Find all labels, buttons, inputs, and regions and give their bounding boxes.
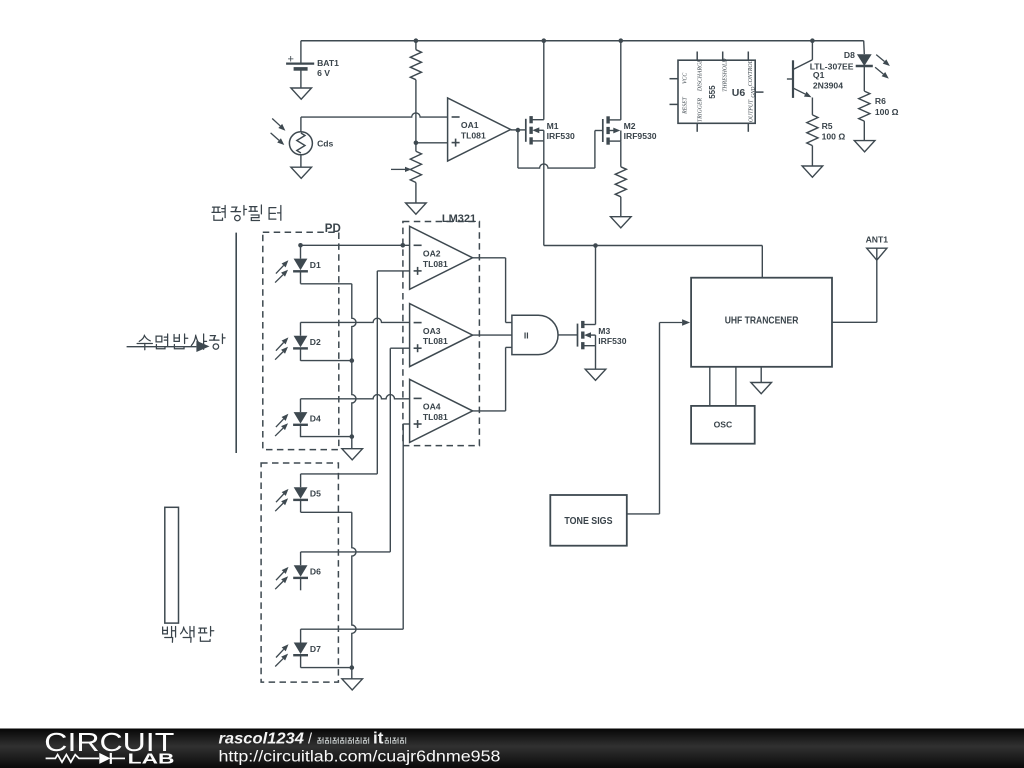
svg-text:RESET: RESET	[683, 96, 689, 115]
svg-text:CONTROL: CONTROL	[748, 60, 754, 86]
node OA1 output	[516, 128, 521, 133]
svg-text:TONE SIGS: TONE SIGS	[564, 516, 613, 527]
wire cathode bus down to ground (bumps over D2,D4 rows)	[352, 284, 356, 449]
transistor M2 IRF9530	[603, 116, 657, 144]
PD box (upper photodiode array)	[263, 223, 341, 450]
white board	[165, 507, 179, 623]
resistor below M2	[615, 167, 626, 217]
svg-text:OA2: OA2	[423, 249, 441, 259]
ground (potentiometer)	[406, 203, 427, 214]
svg-text:+: +	[288, 53, 294, 65]
wire M3 drain up to power node	[595, 246, 597, 325]
wire OA2 non-inv input down to D5	[377, 271, 409, 474]
svg-text:6 V: 6 V	[317, 68, 330, 78]
wire D2 to OA3 inverting input (hop at D5 column)	[301, 318, 410, 322]
svg-text:LAB: LAB	[128, 751, 175, 768]
photodiode D5	[275, 474, 321, 512]
transistor M3 IRF530	[578, 321, 627, 349]
wire OA1 output to M1 gate	[511, 129, 526, 131]
battery BAT1	[286, 41, 339, 88]
photodiode D6	[275, 552, 321, 590]
svg-text:100 Ω: 100 Ω	[875, 107, 899, 117]
node D4 cathode junction	[350, 434, 355, 439]
wire gate bus OA1 to M2 gate (hop over M1 column)	[518, 130, 603, 168]
wire D4 to OA4 inverting input (hops)	[301, 395, 410, 399]
svg-text:BAT1: BAT1	[317, 58, 339, 68]
svg-text:ANT1: ANT1	[866, 235, 889, 245]
svg-text:LTL-307EE: LTL-307EE	[810, 61, 854, 71]
svg-text:M1: M1	[547, 121, 559, 131]
ground (R6)	[854, 141, 875, 152]
node D2 cathode junction	[350, 358, 355, 363]
node rail-M1	[542, 38, 547, 43]
wire tap to OA1 non-inverting input	[416, 142, 448, 144]
svg-text:IRF9530: IRF9530	[624, 131, 657, 141]
svg-text:OSC: OSC	[714, 420, 733, 430]
svg-text:IRF530: IRF530	[547, 131, 575, 141]
wire D4 cathode to bus	[301, 436, 352, 438]
svg-text:D2: D2	[310, 337, 321, 347]
op-amp OA3	[410, 304, 473, 367]
node D7 cathode junction	[350, 665, 355, 670]
wire TONE SIGS output	[627, 513, 660, 515]
TONE SIGS box	[550, 495, 627, 546]
IC U6 555 timer	[670, 52, 764, 132]
node divider tap	[414, 141, 419, 146]
ground (lower PD array)	[342, 679, 363, 690]
svg-text:U6: U6	[732, 87, 746, 99]
svg-text:100 Ω: 100 Ω	[822, 131, 846, 141]
wire D5 anode row	[301, 473, 378, 475]
wire D7 cathode to bus	[301, 667, 352, 669]
photodiode D2	[275, 322, 321, 360]
svg-text:D8: D8	[844, 50, 855, 60]
svg-text:M3: M3	[598, 326, 610, 336]
svg-text:D4: D4	[310, 414, 321, 424]
wire M2 source to rail	[620, 41, 622, 120]
ground (UHF)	[751, 367, 772, 394]
svg-text:TRIGGER: TRIGGER	[697, 97, 703, 122]
ground (R5)	[802, 166, 823, 177]
svg-text:rascol1234: rascol1234	[219, 730, 305, 747]
svg-text:OA3: OA3	[423, 326, 441, 336]
wire M1 drain to rail	[543, 41, 545, 120]
transistor M1 IRF530	[526, 116, 575, 144]
wire D1 to OA2 inverting input	[301, 244, 410, 246]
svg-text:Q1: Q1	[813, 70, 825, 80]
op-amp OA4	[410, 379, 473, 442]
op-amp OA2	[410, 226, 473, 289]
potentiometer (wiper arrow)	[391, 143, 422, 203]
wire lower cathode bus (bumps over D6,D7 rows)	[352, 512, 356, 667]
svg-text:UHF TRANCENER: UHF TRANCENER	[725, 316, 799, 327]
node rail-resistor	[414, 38, 419, 43]
photodiode D4	[275, 399, 321, 437]
wire OA2 out to AND input 1	[473, 258, 512, 323]
antenna ANT1	[832, 235, 888, 323]
transistor Q1 2N3904	[787, 41, 843, 115]
node power-M3	[593, 243, 598, 248]
wire TONE SIGS to UHF (arrow)	[660, 319, 691, 514]
svg-text:D1: D1	[310, 260, 321, 270]
wire M1 source down to power node row	[543, 141, 545, 246]
resistor R-divider top	[410, 41, 421, 143]
svg-text:http://circuitlab.com/cuajr6dn: http://circuitlab.com/cuajr6dnme958	[219, 749, 501, 766]
wire AND output to M3 gate	[558, 334, 577, 336]
ground (M2 resistor)	[611, 217, 632, 228]
svg-text:PD: PD	[325, 223, 341, 235]
svg-text:OA1: OA1	[461, 120, 479, 130]
photodiode D7	[275, 629, 321, 667]
ground (Cds)	[291, 167, 312, 178]
svg-text:OUTPUT: OUTPUT	[748, 99, 754, 122]
svg-text:TL081: TL081	[423, 412, 448, 422]
svg-text:2N3904: 2N3904	[813, 81, 843, 91]
PD box (lower photodiode array)	[261, 463, 338, 682]
svg-text:D6: D6	[310, 567, 321, 577]
label polarizing filter (Korean)	[212, 205, 281, 221]
svg-text:OA4: OA4	[423, 402, 441, 412]
svg-text:II: II	[524, 330, 529, 340]
ground (M3)	[585, 369, 606, 380]
wire D6 anode row	[301, 551, 391, 553]
OSC box	[691, 406, 755, 444]
svg-text:R6: R6	[875, 96, 886, 106]
wire OA4 non-inv input down to D7	[403, 424, 409, 629]
ground (upper PD array)	[342, 449, 363, 460]
svg-text:M2: M2	[624, 121, 636, 131]
wire OA4 out to AND input 3	[473, 347, 512, 411]
UHF TRANCENER box	[691, 278, 832, 367]
resistor R6	[859, 91, 899, 141]
wire OA3 out to AND input 2	[473, 334, 512, 336]
node at LM321 edge	[401, 243, 406, 248]
footer CircuitLab bar	[0, 727, 1024, 768]
svg-text:TL081: TL081	[423, 336, 448, 346]
svg-text:it: it	[373, 728, 384, 747]
wire D5 cathode to lower bus	[301, 511, 352, 513]
wire D1 cathode to bus	[301, 283, 352, 285]
svg-text:R5: R5	[822, 121, 833, 131]
svg-text:GND: GND	[751, 86, 757, 97]
svg-text:THRESHOLD: THRESHOLD	[722, 58, 728, 92]
resistor R5	[807, 115, 846, 166]
wire M3 source to ground	[595, 346, 597, 370]
wire D2 cathode to bus	[301, 360, 352, 362]
svg-text:D7: D7	[310, 644, 321, 654]
label white board (Korean)	[163, 627, 214, 643]
photodiode D1	[275, 245, 321, 283]
svg-text:TL081: TL081	[423, 259, 448, 269]
photoresistor Cds	[271, 117, 334, 167]
polarizing filter line	[235, 233, 237, 453]
svg-text:LM321: LM321	[442, 213, 476, 225]
LED D8 LTL-307EE	[810, 41, 890, 91]
ground (BAT1)	[291, 88, 312, 99]
op-amp OA1	[448, 98, 511, 161]
wire power row to UHF transceiver	[544, 246, 763, 278]
svg-text:D5: D5	[310, 489, 321, 499]
wire OA3 non-inv input down to D6	[390, 348, 409, 552]
node D1 anode	[298, 243, 303, 248]
AND gate II	[512, 315, 558, 354]
svg-text:VCC: VCC	[683, 73, 689, 84]
node rail-Q1	[810, 38, 815, 43]
svg-text:555: 555	[708, 85, 717, 99]
svg-text:TL081: TL081	[461, 131, 486, 141]
label water-surface reflected light (Korean) with arrow	[127, 334, 225, 352]
wire bus to lower ground	[351, 668, 353, 679]
wire Cds to OA1 inverting input (hop over resistor column)	[301, 113, 448, 117]
wire UHF to OSC	[710, 367, 736, 406]
wire M2 drain down	[620, 141, 622, 167]
node rail-M2	[619, 38, 624, 43]
wire D7 anode row	[301, 628, 404, 630]
wire top supply rail	[301, 40, 864, 42]
svg-text:DISCHARGE: DISCHARGE	[697, 59, 703, 92]
LM321 box	[403, 213, 480, 446]
svg-text:Cds: Cds	[317, 139, 333, 149]
svg-text:IRF530: IRF530	[598, 336, 626, 346]
